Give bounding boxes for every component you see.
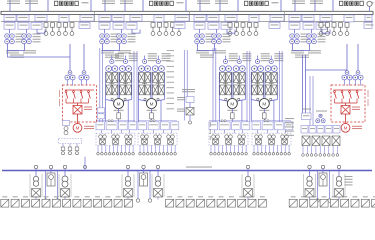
CT sensor 42 [268, 135, 276, 139]
terminal 4-7 [276, 153, 279, 156]
wire T11 down [7, 44, 9, 51]
svg-text:M: M [117, 101, 121, 106]
terminal block X18 [207, 199, 215, 207]
mid riser b [186, 50, 188, 97]
terminal block X17 [197, 199, 205, 207]
terminal block X16 [186, 199, 194, 207]
wire drop 3-9 [241, 145, 243, 152]
CT sensor 22 [154, 135, 162, 139]
wire drop 4-5 [269, 145, 271, 152]
rail L U4B [264, 72, 266, 100]
terminal F-5 [319, 154, 322, 157]
mid chain terminal [189, 121, 192, 124]
terminal block X14 [166, 199, 174, 207]
drop pair R1a [302, 55, 304, 113]
wire meter 1 [50, 169, 52, 173]
relay box K43 [275, 122, 284, 130]
assembly link 3 [214, 130, 216, 133]
rail R U2A [150, 72, 152, 100]
wire drop 1-5 [113, 145, 115, 152]
label red motor L [84, 126, 94, 129]
transformer TR2 [62, 176, 68, 187]
relay box K14 [129, 122, 137, 130]
thyristor module U4A2R [258, 85, 263, 95]
relay box K42 [262, 122, 273, 130]
wire T41 down [292, 44, 294, 51]
svg-text:M: M [150, 101, 154, 106]
terminal 2-1 [139, 153, 142, 156]
red disconnect switch S4 [88, 91, 91, 103]
wire B6 down [309, 197, 311, 200]
thyristor module U1B1L [120, 73, 125, 83]
red dashed enclosure left [63, 85, 97, 122]
CT sensor 41 [255, 135, 263, 139]
CT contact 13 [126, 139, 132, 144]
label X22 [250, 196, 255, 197]
thyristor module U1A2R [112, 85, 117, 95]
relay box K41 [252, 122, 261, 130]
terminal 4-2 [257, 153, 260, 156]
label T12 b [23, 50, 36, 53]
bracket lines 5 [242, 174, 254, 197]
wire drop 4-9 [284, 145, 286, 152]
wire into red box [72, 80, 74, 86]
bus node m3 [321, 165, 324, 168]
wire U2B stub [157, 56, 159, 60]
label X32 [373, 196, 375, 197]
meter wire L3 [317, 171, 319, 199]
svg-text:M: M [262, 101, 266, 106]
red disconnect switch S6 [341, 91, 344, 103]
terminal block X24 [289, 199, 297, 207]
riser wire 8 [249, 51, 251, 122]
wire node 1 [35, 169, 37, 176]
relay box K12 [106, 122, 117, 130]
assembly header line 1 [96, 120, 135, 122]
thyristor module U4B1R [272, 73, 277, 83]
wire converge 3 [219, 100, 245, 102]
red contactor KR2 [341, 106, 350, 115]
breaker top U3B [237, 59, 241, 63]
pin P31 [228, 23, 232, 36]
terminal F-6 [323, 154, 326, 157]
label T11 b [6, 50, 19, 53]
aux contactor G7 [312, 136, 320, 146]
terminal block X9 [83, 199, 91, 207]
transformer TR6 [307, 176, 312, 186]
CT contact 43 [282, 139, 288, 144]
label feeder 1b [25, 1, 38, 4]
motor M2 [147, 99, 157, 109]
label X30 [353, 196, 358, 197]
pin P45 [345, 23, 349, 36]
rail R U2B [164, 72, 166, 100]
bus node 3 [126, 165, 129, 168]
bracket lines 7 [333, 174, 345, 197]
bus node 4 [156, 165, 159, 168]
terminal 3-3 [218, 153, 221, 156]
mid link U4A [255, 82, 260, 85]
drop pair R2a [309, 76, 311, 126]
breaker top U4A [255, 59, 259, 63]
red side note left [59, 90, 60, 106]
CT sensor 43 [281, 135, 289, 139]
wire drop 2-6 [159, 145, 161, 152]
terminal 4-3 [261, 153, 264, 156]
feeder box D23 [126, 22, 137, 29]
CT contact 31 [213, 139, 219, 144]
aux bracket 4 [322, 29, 330, 33]
red collector line right [335, 102, 358, 104]
coil terminals 1 [108, 120, 113, 122]
bracket lines 3 [122, 174, 134, 197]
bracket lines 2 [59, 174, 71, 197]
terminal 1-8 [124, 153, 127, 156]
wire drop 3-7 [233, 145, 235, 152]
thyristor module U2B2L [153, 85, 158, 95]
aux box A11 [79, 22, 90, 28]
pin P41 [319, 23, 323, 36]
feeder wire F3b [219, 0, 221, 11]
coil terminals 3 [221, 120, 226, 122]
feeder wire F3d [280, 0, 282, 11]
red disconnect switch S8 [356, 91, 359, 103]
fuse block FB2 [150, 1, 184, 5]
wire node 3 [127, 169, 129, 176]
label X6 [54, 196, 59, 197]
breaker box B1 [32, 189, 41, 198]
rail L U1B [118, 72, 120, 100]
assembly header line 2 [138, 120, 177, 122]
breaker top U2B [156, 59, 160, 63]
terminal block X7 [63, 199, 71, 207]
label U4A [261, 53, 270, 61]
breaker box Q23 [130, 15, 142, 21]
terminal dot 2L [144, 98, 146, 100]
terminal block X32 [372, 199, 375, 207]
label T41 b [291, 50, 304, 53]
bracket lines 6 [304, 174, 316, 197]
label T31 b [196, 50, 209, 53]
breaker CB-R4 [353, 71, 363, 80]
label mid chain 2 [177, 97, 185, 100]
red motor MR1 [73, 123, 82, 132]
feeder wire F4a [294, 0, 296, 11]
wire T12 down [24, 44, 26, 51]
pin P42 [326, 23, 330, 36]
assembly feed L1 [105, 100, 107, 122]
thyristor module U3A1L [220, 73, 225, 83]
control transformer T31 [195, 34, 205, 44]
terminal 4-4 [264, 153, 267, 156]
thyristor module U3B2L [233, 85, 238, 95]
feeder box D13 [31, 22, 42, 29]
red disconnect switch S1 [65, 91, 68, 103]
terminal block X21 [238, 199, 246, 207]
label T32 b [213, 50, 226, 53]
red disconnect switch S7 [349, 91, 352, 103]
rail L U3B [232, 72, 234, 100]
wire T21 down [102, 44, 104, 51]
wire drop 1-8 [124, 145, 126, 152]
wire drop 1-9 [128, 145, 130, 152]
bus node m1 [49, 165, 52, 168]
label T22 [128, 34, 136, 43]
breaker block F [316, 114, 325, 123]
terminal block X6 [52, 199, 60, 207]
coil terminals 4 [264, 120, 269, 122]
wire T42 down [309, 44, 311, 51]
breaker CB-R2 [79, 71, 89, 80]
feeder box D31 [194, 22, 205, 29]
pin P24 [171, 23, 175, 36]
wire drop F-1 [302, 146, 304, 154]
cell boundary 2 [94, 11, 96, 21]
aux bracket 3 [227, 29, 235, 33]
aux contactor G8 [322, 136, 330, 146]
assembly link 4 [267, 130, 269, 133]
pin P33 [241, 23, 245, 36]
wire B7 down [338, 197, 340, 200]
control transformer T22 [117, 34, 127, 44]
label junction box right [302, 109, 311, 110]
CT enclosure 2 [138, 133, 177, 145]
label X15 [177, 196, 182, 197]
link bracket 2 [103, 50, 120, 52]
label X11 [105, 196, 110, 197]
thyristor module U2B1L [153, 73, 158, 83]
assembly feed L4 [250, 100, 252, 122]
red bus [65, 89, 94, 91]
cell boundary 4 [284, 11, 286, 21]
assembly link 2 [171, 130, 173, 133]
breaker box Q14 [59, 15, 69, 22]
relay box G5 [333, 126, 340, 134]
label X16 [188, 196, 193, 197]
pin P25 [177, 23, 181, 36]
link run cell1 to red [8, 51, 71, 58]
breaker box Q45 [365, 15, 372, 21]
wire drop 4-6 [273, 145, 275, 152]
relay box K11 [96, 122, 105, 130]
feeder wire F1b [29, 0, 31, 11]
assembly link 2 [143, 130, 145, 133]
label X25 [301, 196, 306, 197]
terminal F-7 [328, 154, 331, 157]
terminal block X27 [320, 199, 328, 207]
wire drop 2-8 [166, 145, 168, 152]
mid chain wire 2 [189, 115, 191, 121]
red wire to motor [77, 114, 79, 123]
label U2B [162, 53, 171, 61]
control transformer T42 [307, 34, 317, 44]
terminal 1-9 [128, 153, 131, 156]
breaker box B3 [124, 189, 133, 198]
label motor M3 [227, 110, 237, 111]
red wire center [77, 103, 79, 106]
label mid chain [182, 89, 195, 92]
bus node 1 [34, 165, 37, 168]
fuse F1 [117, 108, 121, 122]
wire node 7 [338, 169, 340, 176]
breaker box Q31 [194, 15, 206, 21]
label X24 [291, 196, 296, 197]
breaker box B5 [244, 189, 253, 198]
assembly feed R1 [127, 100, 129, 122]
relay box K24 [171, 122, 179, 130]
svg-text:M: M [230, 101, 234, 106]
wire U3A stub [225, 56, 227, 60]
relay box K44 [285, 122, 293, 130]
feeder wire F1d [90, 0, 92, 11]
wire drop F-9 [336, 146, 338, 154]
pin P22 [158, 23, 162, 36]
wire drop 1-2 [101, 145, 103, 152]
label U2A [148, 53, 157, 61]
feeder box D32 [208, 22, 219, 29]
meter device MT1 [47, 173, 55, 186]
fuse block FB3 [245, 1, 279, 5]
breaker box B2 [61, 189, 70, 198]
feeder box D22 [113, 22, 124, 29]
meter wire R3 [329, 171, 331, 199]
label X29 [342, 196, 347, 197]
assembly link 1 [101, 130, 103, 133]
thyristor module U3B1R [240, 73, 245, 83]
aux box A21 [174, 22, 185, 28]
note column 1 [167, 50, 175, 109]
label T42 [318, 34, 326, 43]
meter wire L2 [137, 171, 139, 199]
label X26 [311, 196, 316, 197]
rail L U2B [151, 72, 153, 100]
breaker box Q35 [270, 15, 284, 21]
wire drop F-4 [315, 146, 317, 154]
wire into red box right [354, 80, 356, 86]
wire drop 1-1 [97, 145, 99, 152]
wire top right drop [369, 6, 371, 11]
mid link U1B [123, 82, 128, 85]
terminal 2-3 [147, 153, 150, 156]
riser wire 3 [133, 51, 135, 122]
terminal 4-5 [268, 153, 271, 156]
terminal 2-9 [170, 153, 173, 156]
wire U4B stub [270, 56, 272, 60]
fuse F3 [231, 108, 235, 122]
transformer TR3 [125, 176, 130, 186]
assembly link 3 [234, 130, 236, 133]
label U4B [274, 53, 283, 61]
wire drop 2-2 [143, 145, 145, 152]
label X5 [44, 196, 49, 197]
bus node 2 [63, 165, 66, 168]
feeder wire F2a [104, 0, 106, 11]
drop pair R2b [312, 76, 314, 126]
meter terminal R1 [56, 199, 59, 202]
red wire center right [345, 103, 347, 106]
wire U3B stub [238, 56, 240, 60]
terminal 2-2 [143, 153, 146, 156]
terminal block X15 [176, 199, 184, 207]
pin P23 [164, 23, 168, 36]
pin P21 [151, 23, 155, 36]
terminal 3-1 [210, 153, 213, 156]
wire drop F-2 [306, 146, 308, 154]
bus node 6 [308, 165, 311, 168]
breaker CB-R3 [342, 71, 352, 80]
terminal block X4 [32, 199, 40, 207]
meter wire L1 [45, 171, 47, 199]
rail R U3B [244, 72, 246, 100]
label feeder 4a [292, 1, 305, 4]
breaker pair U3A [220, 66, 232, 72]
breaker top U1B [123, 59, 127, 63]
CT sensor 32 [225, 135, 233, 139]
fuse block FB4 [340, 1, 374, 5]
breaker top U4B [269, 59, 273, 63]
wire drop F-3 [311, 146, 313, 154]
note column 2 [210, 122, 211, 140]
relay box G3 [317, 126, 324, 134]
breaker box Q25 [175, 15, 189, 21]
label link 2 [105, 55, 119, 58]
CT contact 21 [142, 139, 148, 144]
terminal block X30 [351, 199, 359, 207]
breaker box Q33 [225, 15, 237, 21]
wire T12 top [26, 30, 28, 34]
CT contact 33 [239, 139, 245, 144]
label T22 b [118, 50, 131, 53]
rail R U4A [263, 72, 265, 100]
control transformer T11 [5, 34, 15, 44]
CT sensor 13 [125, 135, 133, 139]
label DC bus [186, 167, 212, 168]
breaker top U1A [110, 59, 114, 63]
wire drop 1-3 [105, 145, 107, 152]
feeder wire F1a [9, 0, 11, 11]
CT sensor 23 [167, 135, 175, 139]
feeder box D21 [99, 22, 110, 29]
label U1B [129, 53, 138, 61]
transformer TR7 [336, 176, 341, 186]
thyristor module U4B2L [265, 85, 270, 95]
thyristor module U4B2R [272, 85, 277, 95]
wire T31 down [197, 44, 199, 51]
wire drop 3-5 [226, 145, 228, 152]
breaker pair U1B [120, 66, 132, 72]
wire drop 3-6 [230, 145, 232, 152]
red disconnect switch S5 [334, 91, 337, 103]
wire red block to bus [84, 157, 86, 171]
note column 3 [285, 118, 294, 136]
label feeder 1a [7, 1, 20, 4]
breaker top U3A [223, 59, 227, 63]
label X8 [74, 196, 79, 197]
CT contact 22 [155, 139, 161, 144]
aux contactor G6 [302, 136, 310, 146]
wire T22 top [121, 30, 123, 34]
assembly link 4 [257, 130, 259, 133]
wire meter 2 [143, 169, 145, 173]
label KR2 [352, 107, 360, 110]
wire left conn 3 [76, 144, 78, 148]
pin P35 [254, 23, 258, 36]
breaker box Q24 [154, 15, 164, 22]
assembly link 1 [121, 130, 123, 133]
riser wire 2 [102, 48, 104, 122]
red collector line [66, 102, 89, 104]
riser wire 1 [99, 48, 101, 122]
